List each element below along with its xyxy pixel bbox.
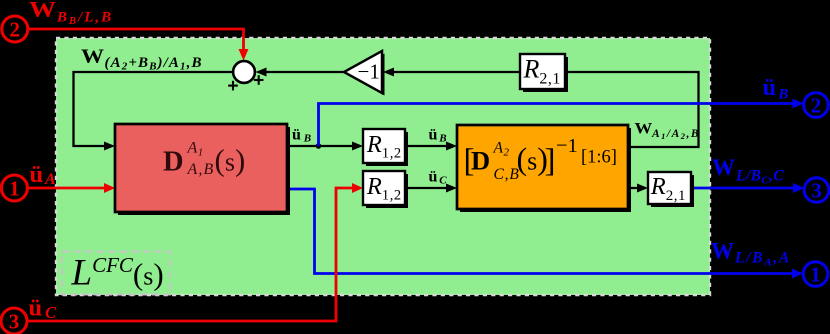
svg-text:L/BA,A: L/BA,A — [734, 250, 791, 269]
plus sign right of summing junction — [254, 75, 264, 85]
label D_A,B^A1(s) inside red block — [163, 140, 245, 179]
svg-text:W: W — [711, 238, 734, 264]
svg-text:BB/L,B: BB/L,B — [56, 9, 113, 27]
label frame for L^CFC(s) — [62, 252, 170, 295]
wire: R12 top to inverse block input u_B — [405, 145, 451, 147]
svg-text:W: W — [712, 155, 735, 181]
svg-text:(s): (s) — [215, 142, 246, 177]
svg-text:üB: üB — [763, 74, 789, 102]
svg-text:A,B: A,B — [187, 161, 215, 178]
input port circle 1 (red, left) — [1, 175, 27, 201]
blue output wire: u_B tap to port 2 — [319, 104, 796, 147]
svg-text:W: W — [81, 45, 105, 67]
node: u_B tap point — [316, 143, 322, 149]
block R_2,1 right (output) — [648, 172, 694, 207]
input port circle 3 (red, bottom left) — [1, 308, 27, 334]
svg-text:D: D — [471, 146, 490, 176]
svg-text:2: 2 — [10, 18, 21, 42]
system boundary box (dashed green region) — [56, 38, 710, 295]
wire: -1 gain to summing junction — [266, 71, 344, 73]
svg-text:D: D — [163, 146, 184, 177]
svg-text:[1:6]: [1:6] — [581, 147, 617, 167]
block D_A,B^A1 (red transfer matrix) — [115, 124, 290, 215]
svg-text:üC: üC — [29, 295, 58, 322]
block R_2,1 top (feedback) — [520, 54, 568, 92]
red input wire port 3: u_C up into R12 bottom — [27, 188, 355, 321]
svg-text:−1: −1 — [358, 59, 380, 83]
block R_1,2 bottom — [363, 171, 408, 208]
input port circle 2 (red, top left) — [2, 16, 28, 42]
svg-text:(s): (s) — [517, 141, 548, 177]
red input wire port 2: W_BB/L,B into summing junction — [28, 29, 244, 52]
output port circle 2 (blue, right) — [804, 93, 829, 118]
output port circle 3 (blue, right) — [804, 178, 829, 203]
block [D_C,B^A2]^-1 (orange inverse block) — [457, 125, 631, 212]
label [D_C,B^A2(s)]^-1[1:6] inside orange block — [464, 135, 617, 183]
svg-text:−1: −1 — [556, 135, 578, 157]
svg-text:1: 1 — [9, 177, 20, 201]
svg-text:1: 1 — [810, 263, 821, 287]
svg-text:W: W — [29, 0, 57, 21]
svg-text:3: 3 — [9, 310, 20, 334]
block R_1,2 top — [363, 129, 408, 166]
wire: R21 top to -1 gain — [394, 71, 520, 73]
wire: R12 bottom to inverse block input u_C — [405, 187, 451, 189]
red input wire port 1: u_A into D block — [28, 187, 108, 190]
svg-text:A1/A2,B: A1/A2,B — [651, 128, 700, 141]
svg-text:L/BC,C: L/BC,C — [735, 167, 784, 186]
gain -1 triangle — [344, 51, 385, 96]
wire: inverse block to R21 right — [628, 187, 642, 189]
blue output wire: W_L/BC,C from R21 right to port 3 — [691, 187, 795, 190]
summing junction circle — [233, 61, 255, 83]
wire: summing junction output to D block input — [74, 72, 234, 146]
output port circle 1 (blue, bottom right) — [803, 262, 828, 287]
svg-text:]: ] — [545, 143, 556, 179]
svg-text:üA: üA — [30, 161, 56, 188]
wire: D block output u_B to R12 top — [287, 145, 357, 147]
svg-text:3: 3 — [811, 179, 822, 203]
blue output wire: W_L/BA,A from D block to port 1 — [287, 189, 794, 274]
svg-text:W: W — [635, 120, 653, 137]
wire: feedback W_A1/A2,B from inverse block via R21 — [565, 72, 699, 147]
plus sign left of summing junction — [228, 81, 238, 91]
svg-text:2: 2 — [811, 94, 822, 118]
